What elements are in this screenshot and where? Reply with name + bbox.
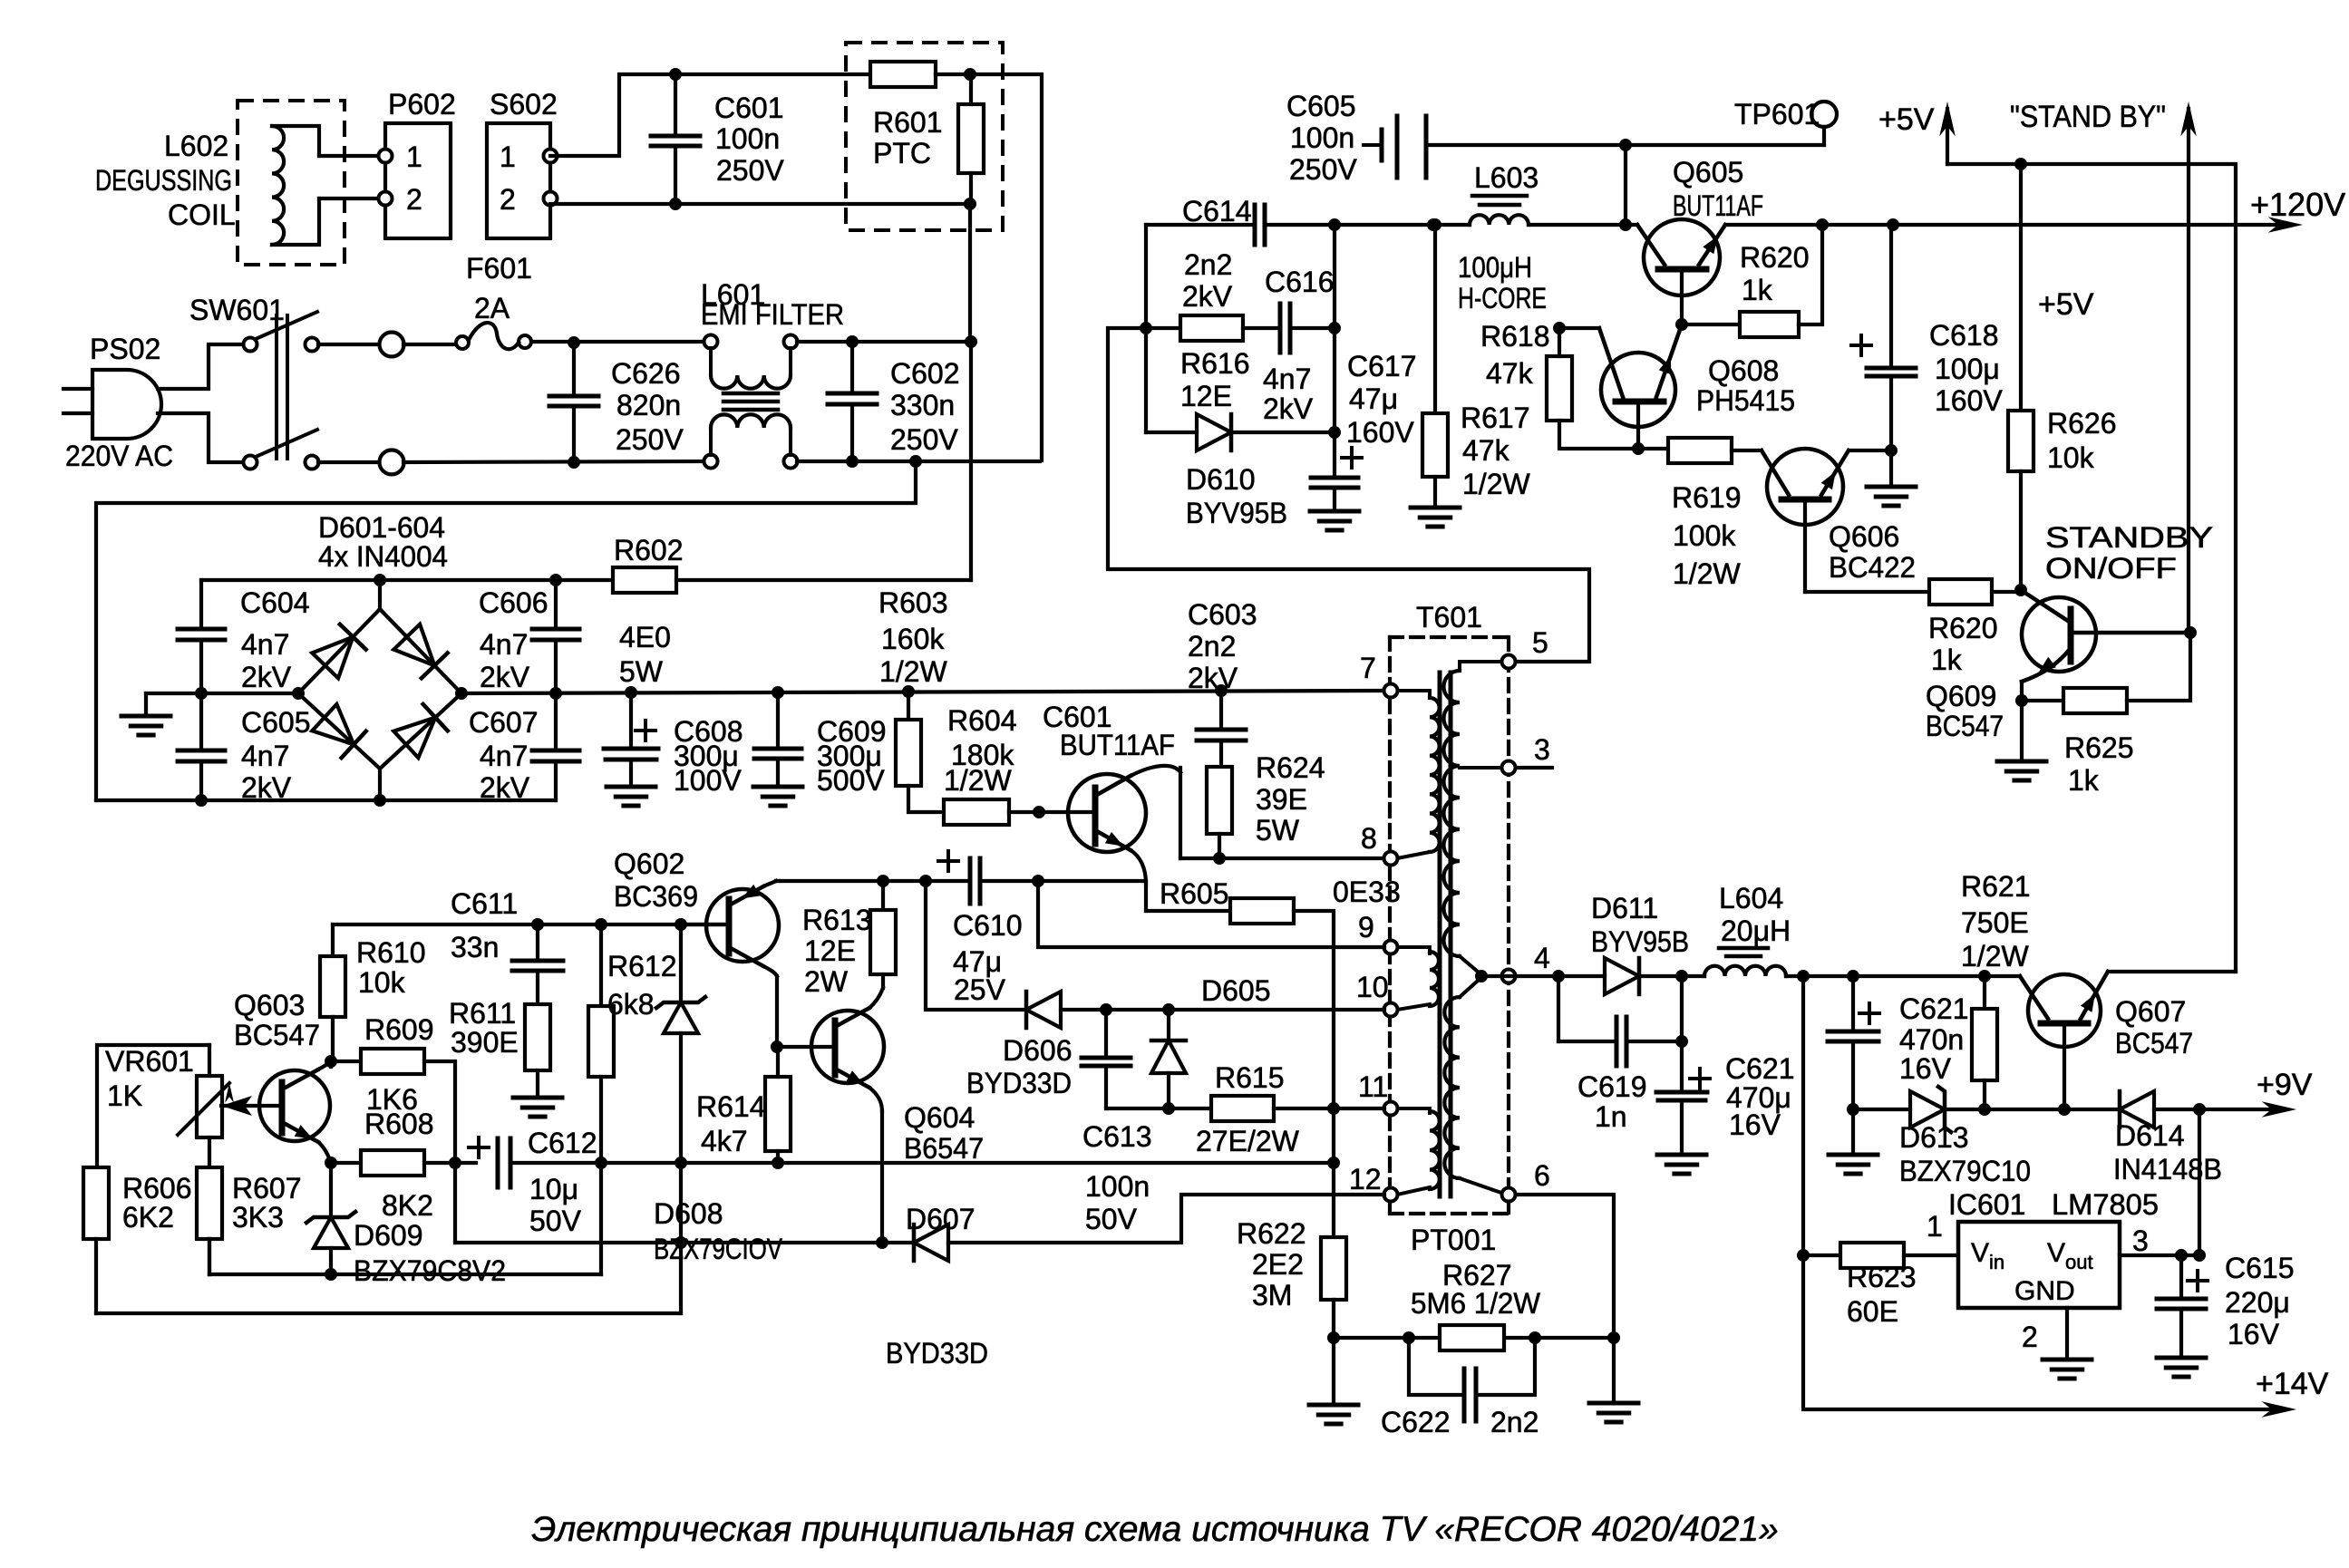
winding T601 secondary 5-3-4 [1460,662,1501,671]
ground hot left [144,693,148,716]
wire R612 riser [599,924,603,1006]
transistor Q601 [1068,774,1146,852]
svg-text:3: 3 [1534,733,1550,766]
svg-text:2W: 2W [804,965,849,998]
node D608 at D607 wire [675,1236,687,1249]
svg-text:100k: 100k [1673,519,1736,552]
arrow +9V [2262,1101,2296,1118]
svg-text:R626: R626 [2047,407,2117,440]
wire S602 pin2 bottom AC line [550,202,970,206]
svg-text:BUT11AF: BUT11AF [1060,729,1175,761]
wire Q605 collector to +120V rail [1725,223,2291,227]
resistor R618 [1547,356,1572,421]
node Q603 collector [325,1055,337,1068]
wire pin4 out [1481,974,1605,978]
capacitor C613 [1104,1010,1108,1058]
svg-text:6K2: 6K2 [122,1201,174,1234]
ground R617 [1411,506,1460,510]
pin 11 T601 [1384,1102,1398,1116]
node R618 top [1553,322,1566,334]
wire S602 pin1 to C601 top [550,74,675,156]
diode D610 [1146,431,1197,434]
wire +14V riser [1803,976,2285,1409]
svg-text:1K: 1K [107,1079,142,1112]
capacitor C601 [651,134,700,139]
svg-text:BC547: BC547 [2115,1027,2193,1060]
svg-text:750E: 750E [1961,906,2029,939]
node R622 bottom [1327,1331,1340,1344]
svg-text:100μH: 100μH [1458,251,1532,284]
svg-text:R619: R619 [1672,481,1742,514]
core T601 [1438,673,1442,1196]
diode D614 [2120,1091,2154,1128]
wire R601 to EMI riser [970,74,1042,460]
svg-text:1/2W: 1/2W [1462,468,1530,500]
node C619 right [1675,1035,1688,1048]
svg-text:"STAND BY": "STAND BY" [2010,100,2166,134]
plus C617 [1342,456,1362,460]
diode D608 zener [679,924,683,1002]
svg-text:R608: R608 [364,1108,434,1140]
capacitor C615 [2179,1255,2183,1299]
capacitor C626 [549,394,598,399]
wire +5V rail [1947,164,2236,972]
svg-text:+5V: +5V [1878,102,1935,137]
svg-text:LM7805: LM7805 [2052,1188,2159,1221]
svg-text:4x IN4004: 4x IN4004 [318,540,448,573]
arrow +14V [2262,1401,2296,1418]
svg-text:4n7: 4n7 [241,740,289,772]
svg-text:100n: 100n [1290,121,1354,154]
node pin6 drop [1607,1331,1620,1344]
node C601 bottom [669,198,682,210]
svg-text:R602: R602 [614,534,684,566]
node R614 bottom [772,1157,784,1169]
wire R627 net [1334,1336,1614,1340]
svg-text:R607: R607 [232,1172,302,1205]
node R615 right [1327,1102,1340,1115]
node bridge left vertex [292,687,305,700]
transistor Q607 [2028,974,2101,1047]
resistor R602 [613,567,676,593]
svg-text:BYV95B: BYV95B [1186,497,1287,529]
capacitor C612 [496,1138,500,1187]
svg-text:8K2: 8K2 [382,1189,433,1222]
svg-text:6: 6 [1534,1159,1550,1192]
svg-text:16V: 16V [1899,1052,1952,1085]
wire bridge bottom stub [378,769,382,800]
wire fuse to EMI filter [531,340,704,344]
node C618 top [1887,218,1899,231]
svg-text:C614: C614 [1182,195,1252,227]
resistor R609 [331,1060,361,1063]
svg-text:Q609: Q609 [1926,680,1996,712]
svg-text:20μH: 20μH [1721,915,1791,947]
svg-text:1: 1 [406,140,422,173]
svg-text:C605: C605 [241,706,311,739]
svg-text:D609: D609 [354,1219,423,1252]
svg-text:PT001: PT001 [1411,1224,1496,1256]
node Vout node [2193,1249,2206,1262]
svg-text:47k: 47k [1486,357,1534,390]
diode D605 vertical [1167,1010,1170,1040]
svg-text:C626: C626 [611,357,681,390]
wire R604 to Q601 base [1009,810,1095,814]
svg-text:2kV: 2kV [241,661,292,693]
svg-text:2: 2 [500,183,516,216]
node C602 bottom [846,455,859,468]
svg-text:D606: D606 [1003,1034,1073,1067]
svg-text:2E2: 2E2 [1252,1248,1304,1281]
svg-text:D608: D608 [654,1197,723,1230]
node C618 bottom junction [1885,444,1898,457]
wire STANDBY down to Q609 [2187,164,2190,633]
svg-text:R625: R625 [2064,731,2134,764]
svg-text:SW601: SW601 [189,294,285,326]
transistor Q602 [706,889,779,962]
svg-text:BZX79CIOV: BZX79CIOV [654,1233,783,1265]
resistor R627 [1440,1325,1504,1350]
svg-text:1/2W: 1/2W [944,764,1012,797]
svg-text:PTC: PTC [873,137,931,169]
node R608 right [449,1157,461,1169]
svg-text:500V: 500V [817,764,885,797]
node EMI/PTC junction [965,335,977,348]
svg-text:C604: C604 [240,586,310,619]
wire C612 long line [601,1161,1334,1165]
node L603 left [1427,218,1440,231]
pin 4 T601 [1502,970,1516,983]
node R626 top [2014,158,2027,170]
svg-text:C605: C605 [1286,90,1356,122]
svg-text:DEGUSSING: DEGUSSING [95,164,232,197]
resistor R616 [1146,326,1180,330]
svg-text:250V: 250V [716,154,784,187]
resistor R619 [1638,447,1668,450]
connector bead top [380,333,404,357]
svg-text:100n: 100n [1085,1170,1150,1203]
node Q603 emitter [325,1157,337,1169]
capacitor C621 470n [1851,976,1855,1031]
node C603 top [1215,684,1228,697]
svg-text:C606: C606 [479,586,548,619]
connector P602 [385,123,451,238]
node D605 top [1162,1003,1175,1016]
ground C615 [2157,1356,2206,1360]
svg-text:10k: 10k [2047,441,2095,474]
svg-text:2A: 2A [474,292,510,324]
svg-text:C611: C611 [451,887,518,920]
node Q605 emitter [1675,318,1688,331]
svg-text:IC601: IC601 [1948,1188,2025,1221]
node C626 top [568,336,580,349]
svg-text:D607: D607 [906,1203,976,1235]
wire PTC bottom down to C602 wire [968,204,972,342]
diode bridge D601-D604 [298,609,380,693]
resistor R612 [588,1006,614,1077]
resistor R611 [536,971,539,1004]
svg-text:4n7: 4n7 [480,628,528,661]
resistor R606 [83,1167,109,1239]
capacitor C610 [968,858,973,904]
svg-text:470n: 470n [1899,1023,1964,1056]
plus C612 [469,1146,489,1149]
resistor R615 [1211,1096,1274,1121]
wire DC rail right [461,691,1384,693]
svg-text:R609: R609 [364,1013,434,1046]
capacitor C618 [1889,225,1893,368]
plus C610 [938,859,958,863]
node bridge right vertex [455,687,468,700]
switch SW601 [244,338,257,352]
node C611 drop [531,918,544,931]
svg-text:C615: C615 [2225,1252,2295,1284]
node R621 top [1978,970,1991,982]
node Q601 base [1033,806,1045,818]
ground C621 470u [1657,1153,1706,1157]
svg-text:2: 2 [406,183,422,216]
svg-text:250V: 250V [616,423,684,456]
pin 3 T601 [1502,761,1516,775]
svg-text:160V: 160V [1935,384,2003,417]
wire Q602 collector rail [776,879,970,883]
wire pin10 line [926,881,1026,1010]
svg-text:16V: 16V [1729,1108,1781,1141]
node bridge bottom [374,794,386,807]
svg-text:R601: R601 [873,106,943,139]
resistor R610 [331,924,335,956]
svg-text:25V: 25V [954,973,1006,1006]
wire pin9 line [1038,881,1384,947]
capacitor C622 [1409,1338,1464,1395]
winding T601 9-10 [1397,947,1430,953]
svg-text:10μ: 10μ [529,1173,578,1205]
node C605 bottom [195,794,208,807]
wire bridge top stub [378,580,382,609]
svg-text:D611: D611 [1591,892,1658,924]
resistor R625 [2022,699,2063,702]
svg-text:R620: R620 [1928,612,1998,644]
svg-text:R612: R612 [607,950,677,982]
pin 6 T601 [1502,1188,1516,1202]
svg-text:10k: 10k [358,966,406,999]
diode D607 [914,1224,948,1261]
wire L602 to P602 pin2 [319,197,379,200]
resistor R626 [2019,164,2023,411]
resistor R622 [1321,1237,1346,1300]
svg-text:390E: 390E [451,1026,519,1059]
regulator IC601 LM7805 [1958,1222,2120,1308]
svg-text:5W: 5W [619,655,664,688]
wire Q602 emitter junction [777,1045,835,1049]
pin 10 T601 [1384,1003,1398,1017]
svg-text:R614: R614 [696,1090,766,1123]
wire bottom most [96,1312,681,1315]
capacitor C604 [178,627,225,632]
svg-text:+14V: +14V [2256,1367,2329,1401]
node R616 left [1140,322,1152,334]
svg-text:12E: 12E [1180,380,1232,412]
svg-text:R622: R622 [1237,1217,1306,1250]
wire D607 line [455,1241,914,1244]
svg-text:27E/2W: 27E/2W [1196,1125,1300,1157]
wire R612 node to rail [599,1163,603,1274]
resistor R604 [944,799,1009,825]
node R620a right riser top [1816,218,1829,231]
node D609 bottom [325,1268,337,1281]
svg-text:COIL: COIL [168,198,236,231]
svg-text:1/2W: 1/2W [1961,940,2029,973]
svg-text:R621: R621 [1961,870,2031,903]
svg-text:V: V [2047,1238,2065,1268]
svg-text:TP601: TP601 [1734,98,1820,131]
connector S602 [487,123,550,238]
svg-text:L604: L604 [1719,882,1783,915]
node C608 top [625,686,637,699]
svg-text:H-CORE: H-CORE [1458,282,1547,315]
ground R611 [513,1096,562,1100]
ground C617 [1310,509,1359,514]
svg-text:D610: D610 [1186,463,1256,496]
wire R619 to Q606 base [1732,449,1762,452]
svg-text:Q608: Q608 [1708,354,1779,387]
svg-text:R605: R605 [1160,877,1229,910]
resistor R601 [870,62,936,87]
node Q607 collector drop [2193,1103,2206,1116]
wire R605 to riser [1294,911,1334,1237]
pin 7 T601 [1384,684,1398,698]
node PTC bottom [964,198,976,210]
node C622 left [1403,1331,1415,1344]
capacitor C614 [1253,205,1257,245]
svg-text:5W: 5W [1256,814,1300,847]
node C609 top [772,686,784,699]
wire R618 to Q608 base [1559,326,1599,330]
svg-text:Q605: Q605 [1673,156,1743,189]
svg-text:+9V: +9V [2257,1068,2313,1102]
svg-text:S602: S602 [490,88,558,121]
capacitor C608 [629,692,633,749]
node pin4 branch [1552,970,1565,982]
svg-text:220V AC: 220V AC [65,440,173,472]
wire plug to switch [158,344,244,389]
svg-text:10: 10 [1356,971,1389,1003]
svg-text:R611: R611 [449,997,516,1030]
svg-text:C603: C603 [1188,598,1257,631]
svg-text:C622: C622 [1381,1406,1451,1438]
wire C605 node to L603 out [1624,145,1627,225]
wire C611 top rail [333,923,729,926]
arrow +5V [1946,109,1949,164]
wire EMI top out [797,340,971,344]
svg-text:L603: L603 [1474,161,1538,194]
capacitor C602 [828,392,877,396]
svg-text:L602: L602 [164,130,228,162]
svg-text:Q602: Q602 [614,847,684,880]
node R612 top [595,918,607,931]
arrow STANDBY [2187,109,2190,164]
wire R602 to riser [676,578,971,582]
transistor Q603 [259,1070,330,1141]
svg-text:100V: 100V [674,764,742,797]
wire loop to T601 pin5 [1108,328,1589,662]
capacitor C603 [1197,728,1246,732]
svg-text:100μ: 100μ [1935,353,2000,385]
ground R622 [1332,1338,1335,1405]
wire R616 loop left [1144,225,1148,432]
transistor Q605 [1644,219,1720,295]
svg-text:EMI FILTER: EMI FILTER [701,298,844,331]
svg-text:1n: 1n [1595,1100,1627,1133]
svg-text:2: 2 [2022,1321,2038,1353]
svg-text:250V: 250V [1289,153,1357,186]
svg-text:33n: 33n [451,931,499,963]
svg-text:2n2: 2n2 [1490,1406,1538,1438]
svg-text:C613: C613 [1082,1120,1152,1153]
svg-text:8: 8 [1361,822,1377,855]
svg-text:+5V: +5V [2038,287,2094,322]
node C615 top [2175,1249,2188,1262]
capacitor C611 [536,924,539,961]
svg-text:T601: T601 [1416,601,1482,634]
wire R603 to R604 [908,786,944,812]
node R612 bottom [595,1157,607,1169]
ground pin6 net [1612,1338,1616,1403]
resistor R617 [1433,225,1437,413]
ground Q609 [2020,701,2024,761]
wire Q606 emitter to R620b [1805,590,1929,594]
node Q609 emitter [2015,694,2028,707]
diode D613 zener [1910,1091,1945,1128]
wire +9V line [1853,1108,1910,1111]
pin2 stub [2065,1308,2069,1360]
svg-text:GND: GND [2014,1276,2075,1306]
svg-text:IN4148B: IN4148B [2113,1153,2222,1186]
wire C613 bottom to R615 [1106,1107,1211,1110]
svg-text:60E: 60E [1847,1295,1898,1328]
dashed box T601 [1390,635,1509,639]
node C605 wire to L603 [1619,139,1632,151]
svg-text:220μ: 220μ [2225,1286,2290,1319]
svg-text:1/2W: 1/2W [879,655,947,688]
plus C618 [1851,344,1871,347]
plus C621 470n [1859,1011,1879,1015]
node L603 right [1619,218,1632,231]
svg-text:F601: F601 [466,252,532,285]
node C607 mid [549,687,562,700]
svg-text:D614: D614 [2115,1119,2185,1152]
node C621 at 9V [1847,1103,1859,1116]
svg-text:R604: R604 [947,704,1017,737]
wire bridge mid left [146,692,298,695]
svg-text:PS02: PS02 [90,333,160,365]
resistor R613 [881,881,885,910]
svg-text:C602: C602 [890,357,960,390]
wire VR601 wiper to Q603 base [221,1104,282,1108]
inductor L603 [1472,194,1527,198]
diode D606 [1026,992,1061,1028]
svg-text:4E0: 4E0 [619,621,671,653]
node EMI bottom drop [909,455,922,468]
wire Q607 collector to Vout [2198,1109,2201,1255]
test point TP601 [1811,102,1837,127]
svg-text:16V: 16V [2228,1318,2280,1350]
node Q608 emitter [1632,442,1645,455]
svg-text:3: 3 [2132,1224,2149,1257]
node C612 line right [1327,1157,1340,1169]
wire L602 to P602 pin1 [319,154,379,158]
wire bottom rail left [209,1273,601,1276]
